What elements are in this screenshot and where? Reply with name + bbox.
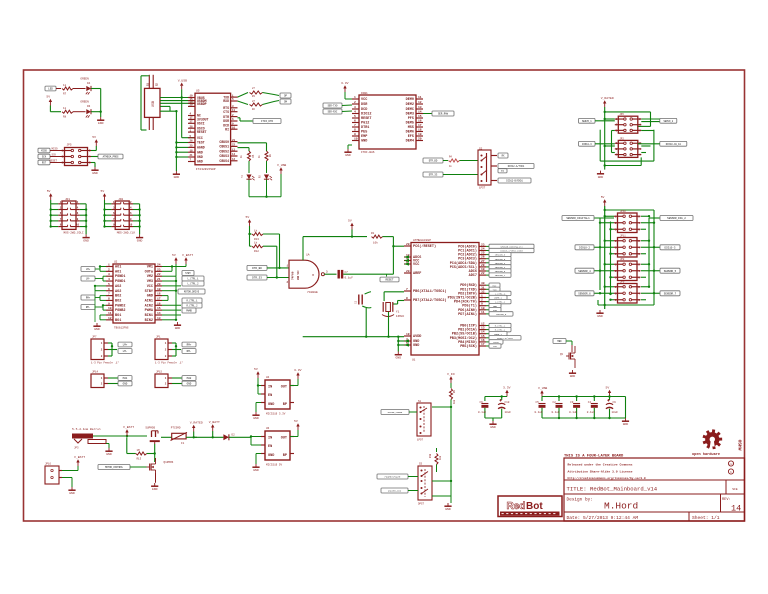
svg-text:10k: 10k xyxy=(453,399,456,404)
svg-text:DIO10-2: DIO10-2 xyxy=(579,246,590,249)
wire xyxy=(249,161,267,173)
svg-text:1: 1 xyxy=(481,295,483,298)
wire S2 outputs xyxy=(491,156,497,181)
svg-text:AO2: AO2 xyxy=(115,285,121,289)
labels U1 port C xyxy=(486,244,534,277)
supply 5V xyxy=(47,189,53,200)
supply 5V xyxy=(348,219,354,230)
svg-text:1k: 1k xyxy=(449,165,452,168)
svg-text:R13: R13 xyxy=(254,238,259,241)
wires JD1 right xyxy=(80,204,88,235)
supply 3.3V xyxy=(294,368,302,379)
svg-text:1k: 1k xyxy=(63,83,67,87)
wire JP16 xyxy=(62,466,78,487)
svg-text:OUT: OUT xyxy=(281,386,287,390)
transistor Q3 xyxy=(560,345,575,368)
label RD+ xyxy=(280,93,291,98)
svg-text:U1: U1 xyxy=(412,359,416,362)
resistor R14 gate xyxy=(127,437,156,462)
header JP6 xyxy=(615,116,642,133)
svg-text:STBY: STBY xyxy=(185,272,191,275)
svg-text:21: 21 xyxy=(190,154,194,157)
ground xyxy=(344,149,351,157)
wire barrel out xyxy=(93,435,147,448)
svg-text:U6: U6 xyxy=(266,427,270,430)
label LMOTOR+ xyxy=(81,267,100,272)
svg-text:R2: R2 xyxy=(252,108,255,111)
svg-text:R1: R1 xyxy=(371,232,375,235)
ground xyxy=(173,171,180,179)
supply V_BATT xyxy=(209,420,220,431)
ground xyxy=(83,234,90,242)
svg-text:18: 18 xyxy=(157,293,161,296)
svg-text:1-3 Pin Female .1": 1-3 Pin Female .1" xyxy=(91,361,119,365)
wire cap bank2 top xyxy=(542,395,626,418)
label PWMB xyxy=(182,276,204,281)
svg-text:MIC5219 3.3V: MIC5219 3.3V xyxy=(266,413,286,416)
wires JP6 xyxy=(595,118,660,131)
svg-text:GND: GND xyxy=(69,491,75,495)
svg-text:OSCI: OSCI xyxy=(197,121,205,125)
connector JP14 1x2 xyxy=(91,371,108,388)
svg-text:LM-: LM- xyxy=(86,278,91,281)
svg-text:18: 18 xyxy=(406,333,410,336)
svg-text:CBUS4: CBUS4 xyxy=(219,159,229,163)
ground xyxy=(489,421,496,429)
svg-text:OUT: OUT xyxy=(281,437,287,441)
label SER_RX xyxy=(323,109,352,114)
svg-text:RX: RX xyxy=(259,175,262,178)
fuse F1 PTC5MD xyxy=(161,427,197,445)
svg-text:3.3V: 3.3V xyxy=(294,368,302,372)
svg-text:5: 5 xyxy=(354,115,356,118)
svg-text:Released under the Creative Co: Released under the Creative Commons xyxy=(568,463,633,467)
svg-text:GND: GND xyxy=(623,422,629,426)
svg-text:PF5: PF5 xyxy=(408,117,414,121)
svg-text:ATMEGA328P: ATMEGA328P xyxy=(413,239,431,242)
wires JP1 xyxy=(172,343,181,356)
svg-text:M.Hord: M.Hord xyxy=(604,501,638,512)
svg-text:11: 11 xyxy=(418,96,422,99)
svg-text:DTR_BD: DTR_BD xyxy=(429,160,438,163)
svg-text:0.1uF: 0.1uF xyxy=(552,411,560,414)
svg-text:GND: GND xyxy=(597,314,603,318)
svg-text:C2: C2 xyxy=(553,401,557,404)
svg-text:SCK: SCK xyxy=(42,156,47,159)
svg-text:BO1: BO1 xyxy=(115,314,121,318)
IC U5 right pins xyxy=(219,94,237,163)
svg-text:0.1uF: 0.1uF xyxy=(535,411,543,414)
svg-text:Q1#MOS: Q1#MOS xyxy=(164,461,174,464)
svg-text:DCD: DCD xyxy=(361,108,367,112)
ground xyxy=(91,167,98,175)
svg-text:SER-TXO: SER-TXO xyxy=(328,105,338,108)
svg-text:8: 8 xyxy=(406,297,408,300)
capacitor C3 xyxy=(569,401,580,418)
connector JP15 1x2 xyxy=(155,371,172,388)
IC U1 ATMEGA328P xyxy=(404,239,479,362)
svg-text:MOS-2WD_COLI: MOS-2WD_COLI xyxy=(64,232,84,235)
connector JD1 2x5 xyxy=(58,198,84,235)
label SENSOR_DIG_2 xyxy=(649,216,693,221)
supply V_USB xyxy=(538,386,547,397)
connector JD2 2x5 xyxy=(111,198,135,235)
svg-text:JP15: JP15 xyxy=(156,371,163,374)
wire D- xyxy=(160,100,195,102)
svg-text:23: 23 xyxy=(232,139,236,142)
IC U1 right pins xyxy=(448,243,486,349)
svg-text:GND: GND xyxy=(570,374,576,378)
svg-text:GND: GND xyxy=(413,344,419,348)
svg-text:PWMA: PWMA xyxy=(145,309,154,313)
wires JP15 xyxy=(172,378,182,384)
svg-text:Q3: Q3 xyxy=(560,353,563,356)
ground xyxy=(68,487,75,495)
wire U4 out xyxy=(290,379,298,386)
svg-text:GND: GND xyxy=(197,160,203,164)
supply V_BATT xyxy=(123,425,134,436)
wires JD2 left xyxy=(103,200,111,228)
svg-text:BIN1: BIN1 xyxy=(145,314,153,318)
supply 5V xyxy=(101,189,107,200)
svg-text:U5: U5 xyxy=(196,90,200,93)
svg-text:16: 16 xyxy=(418,120,422,123)
svg-text:14: 14 xyxy=(232,153,236,156)
label MOTOR_CURRENT xyxy=(98,465,147,470)
wire xyxy=(73,111,86,113)
svg-text:1: 1 xyxy=(101,377,103,380)
svg-text:D2: D2 xyxy=(232,434,236,437)
svg-text:8: 8 xyxy=(108,297,110,300)
svg-text:EMP: EMP xyxy=(361,135,367,139)
svg-text:CBUS3: CBUS3 xyxy=(219,154,229,158)
svg-text:RXD: RXD xyxy=(223,99,229,103)
svg-text:DTR1: DTR1 xyxy=(361,126,369,130)
RedBot logo xyxy=(498,496,562,517)
wire cap bank1 bottom xyxy=(485,418,502,421)
Q1 body xyxy=(147,461,156,473)
svg-text:23: 23 xyxy=(157,268,161,271)
svg-text:C4: C4 xyxy=(588,401,592,404)
supply V_BATT xyxy=(182,253,193,264)
label RXI xyxy=(498,153,508,158)
svg-text:C7: C7 xyxy=(345,271,349,274)
label LED net xyxy=(45,86,56,91)
label SENSOR_5 xyxy=(654,268,680,273)
svg-text:D4: D4 xyxy=(87,82,91,85)
wire servo lower loop xyxy=(600,130,654,167)
wire servo main rail xyxy=(604,107,606,170)
svg-text:AIN1: AIN1 xyxy=(145,299,153,303)
label STBY xyxy=(182,271,194,276)
wire xyxy=(50,106,61,112)
svg-text:AGND: AGND xyxy=(197,146,205,150)
label ATMEGA_A_PROG xyxy=(98,154,123,159)
svg-text:1k: 1k xyxy=(240,155,243,158)
svg-text:10: 10 xyxy=(232,126,236,129)
svg-text:V_BATT: V_BATT xyxy=(123,425,134,429)
svg-text:GND: GND xyxy=(445,507,451,511)
supply V_RATED xyxy=(190,421,203,432)
svg-text:PW2: PW2 xyxy=(187,377,192,380)
supply 5V xyxy=(46,95,52,106)
label DTR_BD in xyxy=(247,265,289,270)
svg-text:1-3 Pin Female .1": 1-3 Pin Female .1" xyxy=(155,361,183,365)
header JP5 ISP 2x3 xyxy=(61,148,91,166)
svg-text:L_CTRL_2: L_CTRL_2 xyxy=(187,283,199,286)
svg-text:13: 13 xyxy=(232,148,236,151)
svg-text:GREEN: GREEN xyxy=(80,101,89,104)
svg-text:GND: GND xyxy=(396,356,402,360)
svg-text:28: 28 xyxy=(481,264,485,267)
svg-text:VCC: VCC xyxy=(147,285,153,289)
label LMOTOR- xyxy=(81,276,103,281)
svg-text:15: 15 xyxy=(418,115,422,118)
svg-text:C1: C1 xyxy=(355,300,358,304)
date row xyxy=(567,515,720,521)
svg-text:AO2: AO2 xyxy=(115,290,121,294)
capacitor C7 xyxy=(338,270,354,279)
resistor R1 xyxy=(303,230,393,245)
svg-text:17: 17 xyxy=(157,297,161,300)
svg-text:USB: USB xyxy=(151,101,155,107)
svg-text:4: 4 xyxy=(354,111,356,114)
svg-text:1: 1 xyxy=(165,377,167,380)
svg-text:DIO12: DIO12 xyxy=(361,113,372,117)
ground xyxy=(105,448,112,456)
svg-text:GND VCC: GND VCC xyxy=(297,270,300,280)
svg-text:CBUS0: CBUS0 xyxy=(219,140,229,144)
svg-text:DEM3: DEM3 xyxy=(406,113,414,117)
ground U2 left xyxy=(94,291,96,322)
svg-text:RI: RI xyxy=(225,127,229,131)
switch S1 xyxy=(417,400,431,442)
supply 5V xyxy=(172,253,178,264)
svg-text:b: b xyxy=(730,470,732,474)
svg-text:29: 29 xyxy=(406,243,410,246)
svg-text:0.1uF: 0.1uF xyxy=(569,411,577,414)
svg-text:TX: TX xyxy=(241,175,244,178)
svg-text:C6: C6 xyxy=(480,401,484,404)
svg-text:7400GE: 7400GE xyxy=(307,291,318,294)
wire xyxy=(460,160,479,162)
svg-text:7: 7 xyxy=(354,124,356,127)
wire U2 left bus xyxy=(94,265,106,320)
svg-text:GND: GND xyxy=(147,295,153,299)
wire servo top loop xyxy=(604,111,651,127)
IC U4 MIC5219 xyxy=(261,376,294,416)
svg-text:PB6(XTAL1/TOSC1): PB6(XTAL1/TOSC1) xyxy=(413,289,447,294)
svg-text:AO1: AO1 xyxy=(115,266,121,270)
svg-text:VM1: VM1 xyxy=(147,266,153,270)
capacitor C10 xyxy=(498,399,511,418)
svg-text:USBDP: USBDP xyxy=(197,102,207,106)
svg-text:BO1: BO1 xyxy=(115,319,121,323)
wire C7 to reset xyxy=(343,237,404,275)
svg-text:0.1uF: 0.1uF xyxy=(587,411,595,414)
svg-text:GND: GND xyxy=(253,416,259,420)
wire xtal gnd bus xyxy=(303,308,404,338)
svg-text:3.3V: 3.3V xyxy=(341,81,349,85)
svg-text:SENSOR_DIG_2: SENSOR_DIG_2 xyxy=(667,217,686,220)
svg-text:JP7: JP7 xyxy=(92,336,97,339)
svg-text:3: 3 xyxy=(108,273,110,276)
supply 5V xyxy=(606,386,612,397)
svg-text:DTR_33: DTR_33 xyxy=(429,174,438,177)
wire VBUS xyxy=(160,89,195,137)
svg-text:GND: GND xyxy=(106,452,112,456)
svg-text:MIC5219 5V: MIC5219 5V xyxy=(266,464,283,467)
svg-text:30: 30 xyxy=(481,282,485,285)
svg-text:OUTa: OUTa xyxy=(145,270,154,274)
label JP1 a xyxy=(182,342,196,347)
wire U4 in xyxy=(257,378,261,394)
supply 5V xyxy=(246,215,252,226)
svg-text:74F00: 74F00 xyxy=(292,271,295,280)
svg-text:open hardware: open hardware xyxy=(692,452,720,457)
svg-text:1k: 1k xyxy=(254,229,258,233)
svg-text:SUPMOS: SUPMOS xyxy=(145,427,155,430)
license text xyxy=(568,463,646,481)
svg-text:15: 15 xyxy=(481,335,485,338)
svg-text:17: 17 xyxy=(190,117,194,120)
wires JP10 xyxy=(599,215,655,230)
svg-text:DEM6: DEM6 xyxy=(406,131,414,135)
svg-text:MOTOR_DRIVE: MOTOR_DRIVE xyxy=(184,291,200,294)
capacitor C9 xyxy=(606,399,618,418)
svg-text:5V: 5V xyxy=(606,386,610,390)
svg-text:10: 10 xyxy=(76,224,80,227)
label DIO12A_TXD1 xyxy=(498,164,534,169)
USB connector J1 xyxy=(141,75,160,130)
svg-text:19: 19 xyxy=(481,268,485,271)
svg-text:PG12: PG12 xyxy=(361,122,369,126)
svg-text:5: 5 xyxy=(108,283,110,286)
supply 5V xyxy=(254,367,260,378)
svg-text:TB6612FNG: TB6612FNG xyxy=(114,327,129,330)
svg-text:10uF: 10uF xyxy=(505,411,512,414)
svg-text:PW1: PW1 xyxy=(123,377,128,380)
svg-text:FT232RL5S0P: FT232RL5S0P xyxy=(196,168,216,171)
svg-text:GND: GND xyxy=(94,327,100,331)
svg-text:R8: R8 xyxy=(63,116,67,119)
wires JP11 xyxy=(599,240,655,255)
svg-text:GND: GND xyxy=(197,155,203,159)
svg-text:DTR_BD: DTR_BD xyxy=(252,267,262,270)
wire xyxy=(91,111,102,118)
wire xyxy=(91,89,101,112)
svg-text:1: 1 xyxy=(101,342,103,345)
svg-text:25: 25 xyxy=(190,145,194,148)
svg-text:CBUS2: CBUS2 xyxy=(219,149,229,153)
capacitor C5 xyxy=(535,401,546,418)
svg-text:13: 13 xyxy=(157,317,161,320)
svg-text:5V: 5V xyxy=(46,95,50,99)
capacitor C4 xyxy=(587,401,598,418)
svg-text:14: 14 xyxy=(731,504,741,514)
resistor R13 xyxy=(250,226,281,269)
label MISO xyxy=(38,148,61,153)
svg-text:16: 16 xyxy=(481,339,485,342)
svg-text:22: 22 xyxy=(481,272,485,275)
label PSDA2 xyxy=(182,303,202,308)
svg-text:6: 6 xyxy=(354,120,356,123)
svg-text:CBUS1: CBUS1 xyxy=(219,145,229,149)
wire gnd FDB1 xyxy=(348,145,352,149)
supply V_RATED xyxy=(601,96,614,107)
wires JP7 xyxy=(108,343,117,356)
svg-text:PD7(AIN1): PD7(AIN1) xyxy=(458,312,477,317)
label JP15 b xyxy=(182,381,196,386)
wire U6 gnd xyxy=(256,454,261,465)
LED D4 xyxy=(86,86,91,95)
label DIO10-2 xyxy=(575,245,600,250)
svg-text:SER-RXI: SER-RXI xyxy=(328,111,338,114)
svg-text:GND: GND xyxy=(361,140,367,144)
svg-text:EN: EN xyxy=(268,445,272,449)
svg-text:5V: 5V xyxy=(172,253,176,257)
svg-text:5V: 5V xyxy=(47,189,51,193)
supply V_USB xyxy=(277,163,286,174)
svg-text:PTC5MD: PTC5MD xyxy=(171,427,181,430)
svg-text:18: 18 xyxy=(418,129,422,132)
svg-text:22: 22 xyxy=(157,273,161,276)
svg-text:GND: GND xyxy=(268,454,274,458)
svg-text:26: 26 xyxy=(481,256,485,259)
IC U2 TB6612FNG xyxy=(106,261,162,330)
svg-text:3: 3 xyxy=(326,271,328,274)
svg-text:SER_RAW: SER_RAW xyxy=(438,113,449,116)
svg-text:7: 7 xyxy=(108,293,110,296)
wire sensor bus verticals xyxy=(600,209,654,305)
svg-text:C9: C9 xyxy=(613,401,617,404)
svg-text:GND: GND xyxy=(187,383,192,386)
svg-text:16MHz: 16MHz xyxy=(396,315,405,318)
label JP14 a xyxy=(118,376,132,381)
NAND gate U3 74HC00 xyxy=(287,254,329,294)
svg-text:1k: 1k xyxy=(258,155,261,158)
OSHW vertical text xyxy=(737,440,743,451)
svg-text:Design by:: Design by: xyxy=(567,498,593,503)
svg-text:AO1: AO1 xyxy=(115,270,121,274)
svg-text:5V: 5V xyxy=(101,189,105,193)
label RD- xyxy=(280,99,291,104)
label SERVO_1 xyxy=(579,118,615,123)
svg-text:SENSOR_DIGITAL1: SENSOR_DIGITAL1 xyxy=(566,217,590,220)
svg-text:FTDI_DTR: FTDI_DTR xyxy=(261,120,274,123)
svg-text:13: 13 xyxy=(481,327,485,330)
svg-text:TEST: TEST xyxy=(197,141,205,145)
wire U1 gnd xyxy=(397,337,409,352)
label RESET xyxy=(38,160,61,165)
svg-text:CTS: CTS xyxy=(223,110,229,114)
svg-text:DIO12-B/RXD1: DIO12-B/RXD1 xyxy=(506,180,523,183)
svg-text:27: 27 xyxy=(252,100,255,103)
svg-text:V_BATT: V_BATT xyxy=(74,455,85,459)
svg-text:5.5-2.1mm Barrel: 5.5-2.1mm Barrel xyxy=(72,427,101,431)
resistor R12 xyxy=(248,233,278,279)
supply V_IN xyxy=(447,372,455,383)
svg-text:GND: GND xyxy=(98,121,104,125)
labels U1 port B xyxy=(486,323,521,348)
svg-text:V_USB: V_USB xyxy=(178,79,187,83)
svg-text:R7: R7 xyxy=(63,93,67,96)
svg-text:Bot: Bot xyxy=(526,501,543,512)
svg-text:4: 4 xyxy=(108,278,110,281)
svg-text:GND: GND xyxy=(253,468,259,472)
svg-text:16: 16 xyxy=(157,302,161,305)
label DTR_BD xyxy=(423,158,443,163)
